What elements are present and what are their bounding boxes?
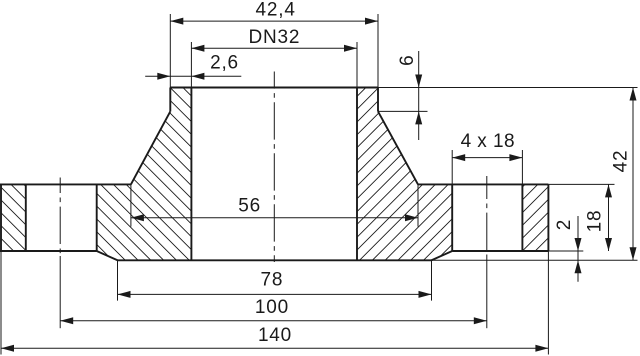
bolt hole left section edges: [26, 184, 97, 251]
svg-text:DN32: DN32: [249, 27, 301, 48]
dimension DN32 bore: [191, 27, 357, 88]
dimension 42,4 neck outer diameter: [170, 0, 378, 87]
svg-text:100: 100: [255, 297, 289, 318]
dimension 78 raised face diameter: [118, 260, 432, 300]
left bolt centerline: [59, 178, 61, 257]
svg-text:18: 18: [585, 210, 606, 233]
hatching left outer ring: [0, 0, 300, 356]
dimension 56 hub base diameter: [131, 184, 418, 226]
dimension 2 raised face height: [548, 216, 583, 282]
svg-text:140: 140: [258, 325, 292, 346]
bolt hole right section edges: [452, 184, 522, 251]
right bolt centerline: [486, 176, 488, 256]
flange outline: [0, 184, 548, 260]
main centerline: [273, 72, 275, 263]
dimension 140 flange outer diameter: [1, 251, 548, 355]
svg-text:56: 56: [238, 196, 261, 217]
svg-text:78: 78: [261, 270, 284, 291]
neck and hub outline: [131, 88, 418, 261]
svg-text:6: 6: [397, 55, 418, 66]
svg-text:42: 42: [611, 150, 632, 173]
hatching right outer ring: [250, 0, 560, 356]
svg-text:4 x 18: 4 x 18: [461, 131, 515, 152]
svg-text:2: 2: [554, 219, 575, 230]
dimension 42 overall height: [378, 88, 638, 261]
svg-text:2,6: 2,6: [210, 52, 239, 73]
dimension 4 x 18 bolt holes: [452, 131, 522, 185]
dimension 100 bolt circle diameter: [60, 297, 487, 324]
dimension 18 flange thickness: [548, 184, 614, 251]
hatching right hub and flange section: [250, 0, 560, 356]
dimension 6 neck straight height: [378, 51, 428, 140]
svg-text:42,4: 42,4: [256, 0, 296, 20]
dimension 2,6 wall thickness: [145, 52, 241, 80]
hatching left hub and flange section: [0, 0, 300, 356]
